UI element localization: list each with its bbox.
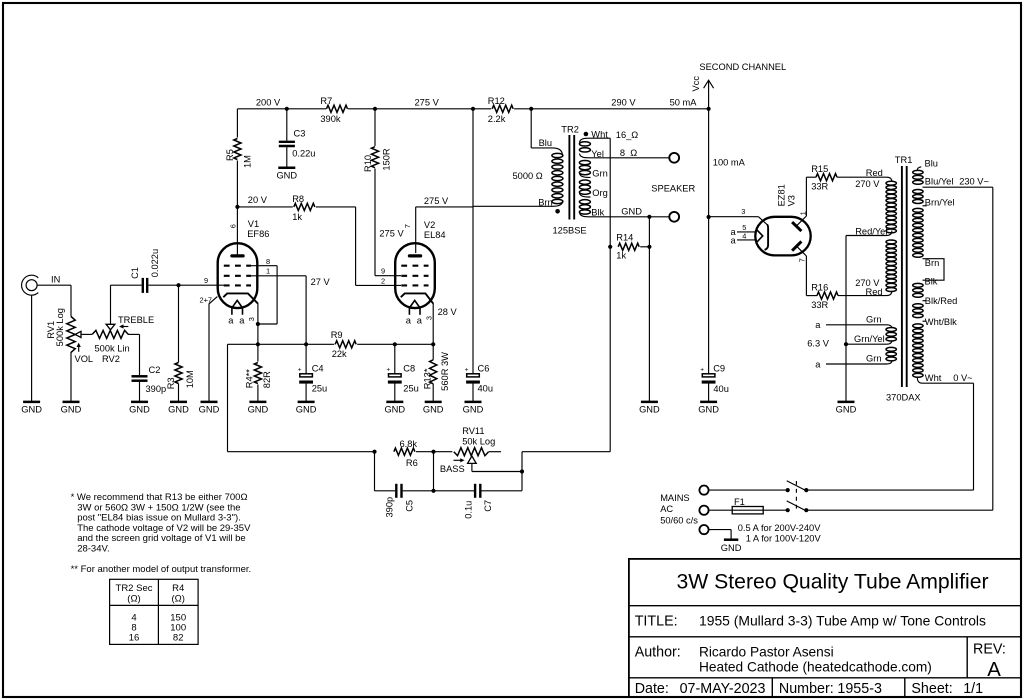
svg-text:Date:: Date: <box>635 681 669 697</box>
svg-text:Vcc: Vcc <box>691 76 701 92</box>
heater V3 <box>737 231 757 233</box>
svg-text:C8: C8 <box>403 363 415 373</box>
svg-text:275 V: 275 V <box>379 228 404 238</box>
wire: 200V/275V/290V B+ bus <box>237 108 326 110</box>
svg-text:Blk: Blk <box>591 207 604 217</box>
svg-text:82: 82 <box>173 633 184 644</box>
svg-text:5000 Ω: 5000 Ω <box>513 171 543 181</box>
svg-text:6.8k: 6.8k <box>400 439 418 449</box>
switch SW1 pole b <box>786 508 790 512</box>
capacitor C4 <box>305 344 307 374</box>
svg-text:GND: GND <box>721 543 742 553</box>
svg-text:a: a <box>406 315 412 325</box>
svg-text:275 V: 275 V <box>424 196 449 206</box>
switch SW1 pole a <box>786 488 790 492</box>
svg-text:7: 7 <box>403 224 412 228</box>
anode plate top V3 <box>792 222 801 231</box>
svg-text:9: 9 <box>381 267 385 276</box>
connector speaker gnd terminal <box>669 212 679 222</box>
svg-text:a: a <box>239 315 245 325</box>
ground below C2 <box>131 401 148 404</box>
svg-text:GND: GND <box>21 405 42 415</box>
svg-text:Red/Yel: Red/Yel <box>855 227 887 237</box>
transformer TR1 heater winding <box>826 325 892 329</box>
svg-text:BASS: BASS <box>440 464 465 474</box>
wire: R8 to V2 pin 2 <box>355 207 357 286</box>
capacitor C5 <box>395 484 397 498</box>
svg-text:50k Log: 50k Log <box>462 437 495 447</box>
svg-text:C1: C1 <box>130 267 140 279</box>
svg-text:RV2: RV2 <box>102 354 120 364</box>
wire: bus to R5 to 20V node <box>236 109 238 138</box>
wire: B+ to EZ81 pin 3 <box>709 216 759 218</box>
svg-text:C6: C6 <box>478 363 490 373</box>
resistor R8 <box>294 203 315 210</box>
svg-text:1: 1 <box>266 267 270 276</box>
connector J1 input jack <box>22 275 39 295</box>
svg-text:Blu/Yel: Blu/Yel <box>925 177 954 187</box>
svg-text:Blk/Red: Blk/Red <box>925 296 958 306</box>
svg-text:6.3 V: 6.3 V <box>807 339 830 349</box>
svg-text:EL84: EL84 <box>424 230 446 240</box>
svg-text:3W Stereo Quality Tube Amplifi: 3W Stereo Quality Tube Amplifier <box>676 571 988 594</box>
svg-text:a: a <box>815 320 821 330</box>
svg-text:1955-3: 1955-3 <box>837 681 882 697</box>
svg-text:AC: AC <box>660 504 673 514</box>
junction at R3 top <box>176 283 180 287</box>
ground below C9 <box>700 401 717 404</box>
svg-text:GND: GND <box>698 405 719 415</box>
svg-text:Blu: Blu <box>925 159 938 169</box>
svg-text:50/60 c/s: 50/60 c/s <box>660 516 698 526</box>
svg-text:MAINS: MAINS <box>660 493 689 503</box>
wire: feedback to bass pot <box>609 247 611 452</box>
junction on bus at R10 <box>373 107 377 111</box>
svg-text:Author:: Author: <box>635 644 681 660</box>
potentiometer RV2 <box>92 330 128 338</box>
svg-text:Red: Red <box>866 168 883 178</box>
svg-text:C9: C9 <box>713 364 725 374</box>
svg-text:9: 9 <box>204 276 208 285</box>
svg-text:Yel: Yel <box>591 149 604 159</box>
svg-text:Brn: Brn <box>538 197 552 207</box>
wire: R16 to TR1 <box>838 295 887 297</box>
wire: bus to C3 <box>286 109 288 141</box>
capacitor C1 <box>142 278 144 293</box>
connector mains live <box>699 486 708 495</box>
transformer TR2 secondary winding <box>579 142 590 146</box>
svg-text:16_Ω: 16_Ω <box>616 130 639 140</box>
svg-text:TITLE:: TITLE: <box>635 613 678 629</box>
junction R14 left <box>608 245 612 249</box>
svg-text:GND: GND <box>61 405 82 415</box>
wire: C5 left leg <box>374 452 376 491</box>
ground below C4 <box>298 401 315 404</box>
svg-text:Grn: Grn <box>866 314 882 324</box>
svg-text:390p: 390p <box>146 384 167 394</box>
tube V2 EL84 <box>395 243 435 308</box>
svg-text:1955 (Mullard 3-3) Tube Amp w/: 1955 (Mullard 3-3) Tube Amp w/ Tone Cont… <box>699 612 986 628</box>
pot RV11 wiper wire <box>471 463 473 471</box>
svg-text:1: 1 <box>798 211 807 215</box>
cathode V3 <box>765 225 769 250</box>
resistor R12 <box>492 105 513 112</box>
svg-text:R6: R6 <box>406 458 418 468</box>
svg-text:3: 3 <box>741 207 745 216</box>
svg-text:C2: C2 <box>149 365 161 375</box>
svg-text:GND: GND <box>384 405 405 415</box>
wire: C9 branch <box>708 217 710 374</box>
junction C5/C7 node <box>431 489 435 493</box>
phase dot TR2 primary <box>555 209 560 214</box>
svg-text:7: 7 <box>797 258 806 262</box>
svg-text:Wht: Wht <box>591 130 608 140</box>
svg-text:+: + <box>700 367 704 374</box>
svg-text:Brn: Brn <box>925 258 939 268</box>
connector speaker 8ohm terminal <box>669 153 679 163</box>
svg-text:8_Ω: 8_Ω <box>620 148 637 158</box>
wire: V1 pins 2+7 to ground <box>209 297 217 402</box>
svg-text:(Ω): (Ω) <box>171 594 184 605</box>
resistor R14 <box>618 243 639 250</box>
svg-text:GND: GND <box>639 405 660 415</box>
wire: bus to R10 to V2 grid <box>374 109 376 146</box>
svg-text:TREBLE: TREBLE <box>118 315 154 325</box>
svg-text:370DAX: 370DAX <box>886 393 921 403</box>
wire: neutral to fuse <box>709 509 733 511</box>
svg-text:Ricardo Pastor Asensi: Ricardo Pastor Asensi <box>699 644 834 659</box>
svg-text:6: 6 <box>229 224 238 228</box>
junction speaker gnd <box>647 215 651 219</box>
ground below V1 shield <box>201 401 218 404</box>
svg-text:1/1: 1/1 <box>963 681 983 697</box>
wire: V1 anode pin 6 <box>236 207 238 255</box>
svg-text:GND: GND <box>423 405 444 415</box>
svg-text:Org: Org <box>592 188 608 198</box>
ground below RV1 <box>63 401 80 404</box>
svg-text:GND: GND <box>296 405 317 415</box>
svg-text:3: 3 <box>424 316 433 320</box>
svg-text:50 mA: 50 mA <box>670 98 698 108</box>
wire: V1 screen pin 1 to 27V node <box>251 275 306 277</box>
ground below C6 <box>465 401 482 404</box>
svg-text:R15: R15 <box>811 164 828 174</box>
wire: bus down to 275V node and C6 <box>472 109 474 374</box>
svg-text:R4**: R4** <box>244 369 254 389</box>
wire: C3 to ground <box>286 147 288 168</box>
svg-text:33R: 33R <box>811 300 828 310</box>
svg-text:TR1: TR1 <box>895 155 913 165</box>
svg-text:Blk: Blk <box>925 276 938 286</box>
svg-text:GND: GND <box>621 207 642 217</box>
svg-text:28 V: 28 V <box>438 307 458 317</box>
wire: RV1 bottom to ground <box>70 352 72 402</box>
svg-text:Blu: Blu <box>539 138 552 148</box>
svg-text:16: 16 <box>129 633 140 644</box>
svg-text:a: a <box>731 236 737 246</box>
junction V1 cathode/g3 <box>256 322 260 326</box>
resistor R7 <box>327 105 348 112</box>
potentiometer RV1 <box>67 317 75 353</box>
svg-text:Red: Red <box>866 287 883 297</box>
svg-text:C5: C5 <box>405 500 415 512</box>
svg-text:R3: R3 <box>166 377 176 389</box>
ground below R3 <box>170 401 187 404</box>
svg-text:1 A for 100V-120V: 1 A for 100V-120V <box>746 534 822 544</box>
svg-text:R10: R10 <box>363 155 373 172</box>
svg-text:Wht: Wht <box>925 373 942 383</box>
svg-text:2.2k: 2.2k <box>488 114 506 124</box>
junction R14 right <box>647 245 651 249</box>
wire: RV2 wiper to C1 <box>111 284 142 286</box>
power flag Vcc arrow <box>708 81 710 109</box>
svg-text:1M: 1M <box>242 155 252 168</box>
svg-text:Sheet:: Sheet: <box>911 681 952 697</box>
svg-text:R16: R16 <box>811 283 828 293</box>
svg-text:GND: GND <box>276 170 297 180</box>
svg-text:20 V: 20 V <box>248 195 268 205</box>
junction 27V screen node <box>304 342 308 346</box>
ground below R4 <box>249 401 266 404</box>
svg-text:40u: 40u <box>713 384 729 394</box>
wire: R6 junction down <box>433 452 435 491</box>
svg-text:EZ81: EZ81 <box>776 184 786 206</box>
svg-text:Grn: Grn <box>866 354 882 364</box>
capacitor C9 <box>702 374 715 377</box>
wire: switch to 0V~ riser <box>806 489 973 491</box>
phase dot TR2 secondary <box>584 132 589 137</box>
transformer TR1 HV winding lower <box>891 240 893 242</box>
svg-text:25u: 25u <box>403 384 419 394</box>
svg-text:Brn/Yel: Brn/Yel <box>925 197 955 207</box>
svg-text:** For another model of output: ** For another model of output transform… <box>71 564 252 575</box>
transformer TR2 core <box>568 135 570 220</box>
junction V2 cathode node <box>431 342 435 346</box>
svg-text:REV:: REV: <box>973 641 1006 657</box>
capacitor C7 <box>474 484 476 498</box>
wire: V1 cathode down <box>257 303 259 344</box>
capacitor C3 <box>279 141 295 143</box>
anode plate bottom V3 <box>792 241 801 250</box>
svg-text:R8: R8 <box>292 194 304 204</box>
wire: R6 right to RV11 <box>416 451 452 453</box>
svg-text:GND: GND <box>836 405 857 415</box>
transformer TR1 HV winding upper <box>887 177 892 182</box>
fuse F1 <box>732 507 763 514</box>
svg-text:150R: 150R <box>382 148 392 171</box>
svg-text:560R 3W: 560R 3W <box>440 352 450 391</box>
connector mains neutral <box>699 506 708 515</box>
svg-text:a: a <box>815 359 821 369</box>
svg-text:C4: C4 <box>312 363 324 373</box>
svg-text:V3: V3 <box>786 195 796 206</box>
transformer TR2 primary winding <box>531 148 562 156</box>
resistor R9 <box>335 341 356 348</box>
svg-text:275 V: 275 V <box>415 98 440 108</box>
wire: C6 to ground <box>472 383 474 402</box>
table TR2 sec / R4 <box>110 579 199 644</box>
svg-text:SPEAKER: SPEAKER <box>651 184 695 194</box>
svg-text:0.022u: 0.022u <box>150 249 160 277</box>
resistor R16 <box>817 292 838 299</box>
wire: C2 to ground <box>139 382 141 402</box>
capacitor C2 <box>132 375 148 378</box>
wire: cathode bus left corner to bass network <box>228 343 258 345</box>
svg-text:C3: C3 <box>294 129 306 139</box>
capacitor C6 <box>467 374 480 377</box>
svg-text:0.22u: 0.22u <box>292 149 315 159</box>
junction on bus at TR2 <box>529 107 533 111</box>
svg-text:GND: GND <box>463 405 484 415</box>
wire: fuse to switch <box>763 509 788 511</box>
junction V1 cathode node <box>256 342 260 346</box>
svg-text:0.5 A for 200V-240V: 0.5 A for 200V-240V <box>738 523 822 533</box>
tube V1 EF86 <box>218 243 258 308</box>
junction on bus at V2 feed <box>471 107 475 111</box>
wire: 16 ohm feedback down <box>609 138 611 247</box>
svg-text:VOL: VOL <box>75 354 94 364</box>
svg-text:1k: 1k <box>292 212 302 222</box>
tube V3 EZ81 <box>755 217 810 256</box>
svg-text:Number:: Number: <box>779 681 834 697</box>
ground below C8 <box>386 401 403 404</box>
svg-text:+: + <box>298 367 302 374</box>
svg-text:100 mA: 100 mA <box>713 157 746 167</box>
svg-text:390p: 390p <box>384 497 394 518</box>
svg-text:+: + <box>386 367 390 374</box>
wire: V3 pin 7 to R16 <box>797 247 806 256</box>
wire: switch to 230V~ riser <box>806 509 993 511</box>
capacitor C8 <box>394 344 396 374</box>
junction heater CT <box>844 342 848 346</box>
svg-text:10M: 10M <box>185 370 195 388</box>
svg-text:82R: 82R <box>262 371 272 388</box>
ground mains earth <box>724 538 738 541</box>
wire: jack tip to RV1 <box>37 284 71 286</box>
svg-text:R5: R5 <box>225 149 235 161</box>
wire: R3 to ground <box>178 285 180 362</box>
svg-text:R13*: R13* <box>423 368 433 389</box>
junction bass feedback node <box>520 469 524 473</box>
wire: RV2 right to C2 <box>128 333 140 335</box>
svg-text:22k: 22k <box>332 349 347 359</box>
wire: C8 node to V2 cathode node <box>395 343 433 345</box>
junction C8 node <box>393 342 397 346</box>
svg-text:GND: GND <box>199 405 220 415</box>
svg-text:V1: V1 <box>248 219 259 229</box>
svg-text:+: + <box>465 367 469 374</box>
svg-text:33R: 33R <box>811 181 828 191</box>
svg-text:GND: GND <box>248 405 269 415</box>
junction B+ at rectifier <box>707 215 711 219</box>
svg-text:R9: R9 <box>331 330 343 340</box>
wire: V1 g3 pin 8 loop to cathode <box>251 265 277 267</box>
transformer TR1 primary lower <box>913 283 923 287</box>
wire: C5 to C7 <box>403 490 474 492</box>
svg-text:40u: 40u <box>478 384 494 394</box>
wire: jack sleeve to ground <box>31 295 33 402</box>
svg-text:R7: R7 <box>320 96 332 106</box>
svg-text:200 V: 200 V <box>256 98 281 108</box>
transformer TR1 primary upper <box>917 167 921 170</box>
svg-text:TR2: TR2 <box>561 124 579 134</box>
svg-text:Grn: Grn <box>592 168 608 178</box>
ground below jack <box>23 401 40 404</box>
wire: 275V node to V2 pin 7 <box>416 206 473 208</box>
resistor R15 <box>816 174 837 181</box>
svg-text:(Ω): (Ω) <box>127 594 140 605</box>
potentiometer RV11 <box>454 448 489 456</box>
wire: C7 to bass node <box>481 490 522 492</box>
svg-text:0 V~: 0 V~ <box>953 373 973 383</box>
svg-text:V2: V2 <box>424 220 435 230</box>
svg-text:28-34V.: 28-34V. <box>77 543 109 554</box>
wire: V2 cathode down <box>432 303 434 344</box>
resistor R13 <box>430 360 437 384</box>
svg-text:2: 2 <box>381 276 385 285</box>
wire: R15 to TR1 <box>837 176 887 178</box>
wire: C1 to V1 grid pin 9 <box>148 284 224 286</box>
svg-text:27 V: 27 V <box>311 277 331 287</box>
svg-text:C7: C7 <box>483 500 493 512</box>
resistor R6 <box>394 448 415 455</box>
wire: live to switch <box>709 489 788 491</box>
wire: R14 to ground <box>648 247 650 402</box>
ground below TR1 CT <box>838 401 855 404</box>
junction on bus at C3 <box>285 107 289 111</box>
svg-text:230 V~: 230 V~ <box>959 177 989 187</box>
junction 20V node <box>235 205 239 209</box>
ground below R13 <box>425 401 442 404</box>
wire: V1 cathode node to 27V node <box>258 343 306 345</box>
svg-text:IN: IN <box>51 275 60 285</box>
svg-text:07-MAY-2023: 07-MAY-2023 <box>680 681 766 697</box>
resistor R4 <box>254 363 261 384</box>
wire: V3 pin 1 to R15 <box>797 216 806 225</box>
svg-text:EF86: EF86 <box>247 229 269 239</box>
svg-text:R14: R14 <box>616 232 633 242</box>
svg-text:0.1u: 0.1u <box>463 501 473 519</box>
wire: earth to ground <box>709 529 732 531</box>
svg-text:500k Log: 500k Log <box>55 308 65 346</box>
wire: R12 to TR2 primary <box>530 109 532 148</box>
resistor R10 <box>371 147 378 168</box>
junction R6 right <box>431 450 435 454</box>
svg-text:Wht/Blk: Wht/Blk <box>925 317 957 327</box>
svg-text:270 V: 270 V <box>855 179 880 189</box>
ground below R14 <box>641 401 658 404</box>
svg-text:GND: GND <box>168 405 189 415</box>
transformer TR1 core <box>901 166 903 387</box>
wire: HV centre tap to ground <box>845 236 847 402</box>
svg-text:290 V: 290 V <box>611 98 636 108</box>
title block <box>629 559 1021 697</box>
svg-text:1k: 1k <box>616 251 626 261</box>
svg-text:Grn/Yel: Grn/Yel <box>854 334 885 344</box>
svg-text:SECOND CHANNEL: SECOND CHANNEL <box>699 62 786 72</box>
svg-text:4: 4 <box>742 231 746 240</box>
svg-text:3: 3 <box>247 317 256 321</box>
switch link dashed <box>795 481 797 512</box>
svg-text:390k: 390k <box>320 114 341 124</box>
resistor R5 <box>234 139 241 160</box>
svg-text:125BSE: 125BSE <box>553 225 587 235</box>
ground below C3 <box>278 167 295 170</box>
junction on bus at Vcc <box>707 107 711 111</box>
connector mains earth <box>699 525 708 534</box>
svg-text:500k Lin: 500k Lin <box>95 343 130 353</box>
svg-text:GND: GND <box>129 405 150 415</box>
